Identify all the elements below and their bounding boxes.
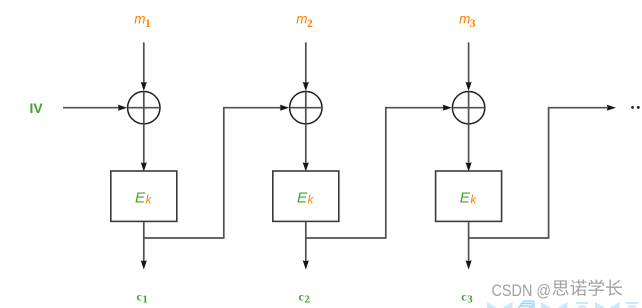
svg-text:E: E bbox=[135, 189, 146, 206]
arrowhead output 3 bbox=[466, 260, 472, 269]
wire m1 to xor bbox=[143, 42, 145, 83]
wire feedback branch 2 horizontal bbox=[306, 237, 386, 239]
wire feedback 2 into xor 3 bbox=[386, 107, 445, 109]
svg-text:1: 1 bbox=[142, 293, 148, 305]
svg-text:2: 2 bbox=[304, 293, 310, 305]
xor circle X1 bbox=[128, 92, 160, 124]
wire xor 3 to Ek box bbox=[468, 124, 470, 164]
svg-text:E: E bbox=[460, 189, 471, 206]
wire Ek 3 output down bbox=[468, 221, 470, 261]
svg-text:1: 1 bbox=[145, 18, 151, 30]
svg-text:E: E bbox=[297, 189, 308, 206]
wire feedback branch 1 horizontal bbox=[144, 237, 224, 239]
block cipher box Ek 2 bbox=[273, 171, 339, 221]
svg-text:m: m bbox=[459, 12, 470, 27]
wire feedback branch 3 horizontal bbox=[469, 237, 549, 239]
arrowhead into Ek box 1 bbox=[141, 162, 147, 171]
arrowhead continuation bbox=[607, 105, 616, 111]
watermark icon row (light blue, cut off) bbox=[487, 302, 497, 308]
wire Ek 2 output down bbox=[305, 221, 307, 261]
watermark char zhang bbox=[606, 280, 622, 296]
svg-text:IV: IV bbox=[30, 100, 44, 116]
wire xor 1 to Ek box bbox=[143, 124, 145, 164]
arrowhead into xor 1 left bbox=[118, 105, 127, 111]
wire continuation to next stage bbox=[549, 107, 607, 109]
arrowhead output 2 bbox=[303, 260, 309, 269]
block cipher box Ek 1 bbox=[111, 171, 177, 221]
arrowhead into xor 2 left bbox=[280, 105, 289, 111]
block cipher box Ek 3 bbox=[436, 171, 502, 221]
wire IV to xor 1 bbox=[63, 107, 120, 109]
wire feedback branch 3 vertical up bbox=[548, 107, 550, 239]
arrowhead into xor 1 top bbox=[141, 82, 147, 91]
svg-text:CSDN @: CSDN @ bbox=[492, 282, 552, 300]
xor circle X3 bbox=[452, 92, 484, 124]
wire m3 to xor bbox=[468, 42, 470, 83]
wire feedback branch 2 vertical up bbox=[385, 107, 387, 239]
watermark char xue bbox=[588, 279, 604, 296]
ellipsis dots bbox=[631, 106, 634, 109]
wire m2 to xor bbox=[305, 42, 307, 83]
watermark char si bbox=[553, 280, 569, 295]
arrowhead into xor 3 top bbox=[466, 82, 472, 91]
svg-text:m: m bbox=[296, 12, 307, 27]
svg-text:3: 3 bbox=[467, 293, 473, 305]
svg-text:2: 2 bbox=[307, 18, 313, 30]
xor circle X2 bbox=[290, 92, 322, 124]
wire xor 2 to Ek box bbox=[305, 124, 307, 164]
wire Ek 1 output down bbox=[143, 221, 145, 261]
wire feedback 1 into xor 2 bbox=[224, 107, 282, 109]
arrowhead into Ek box 3 bbox=[466, 162, 472, 171]
arrowhead into xor 2 top bbox=[303, 82, 309, 91]
wire feedback branch 1 vertical up bbox=[223, 107, 225, 239]
arrowhead into xor 3 left bbox=[443, 105, 452, 111]
watermark char nuo bbox=[570, 280, 586, 296]
svg-text:3: 3 bbox=[470, 18, 476, 30]
arrowhead into Ek box 2 bbox=[303, 162, 309, 171]
arrowhead output 1 bbox=[141, 260, 147, 269]
svg-text:m: m bbox=[134, 12, 145, 27]
